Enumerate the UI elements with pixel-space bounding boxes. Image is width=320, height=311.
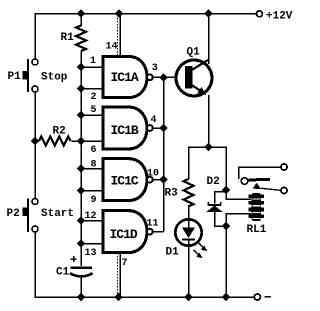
- wire pin5: [81, 114, 102, 116]
- svg-text:R2: R2: [53, 126, 66, 138]
- op gate IC1D: [103, 211, 147, 253]
- op gate IC1A: [103, 56, 147, 97]
- svg-text:7: 7: [122, 258, 128, 269]
- node pin3: [159, 73, 168, 82]
- wire pin7 dotted: [117, 253, 119, 296]
- wire pin14: [119, 14, 121, 56]
- svg-text:12: 12: [85, 211, 97, 222]
- svg-text:D2: D2: [207, 176, 220, 188]
- wire R1 top: [80, 14, 82, 27]
- node pin7 ground: [114, 293, 123, 302]
- wire coil bottom: [226, 214, 251, 227]
- svg-text:13: 13: [85, 248, 97, 259]
- relay coil RL1: [249, 193, 265, 221]
- svg-text:R1: R1: [61, 32, 75, 44]
- svg-text:IC1C: IC1C: [111, 174, 139, 189]
- wire pin2: [81, 88, 102, 90]
- svg-text:Start: Start: [41, 208, 74, 220]
- node relay ground: [222, 293, 231, 302]
- svg-text:9: 9: [91, 195, 97, 206]
- svg-text:D1: D1: [166, 247, 180, 259]
- node pin2: [77, 84, 86, 93]
- node emitter: [204, 143, 213, 152]
- svg-text:8: 8: [91, 160, 97, 171]
- node pin13: [77, 239, 86, 248]
- svg-text:+12V: +12V: [266, 10, 293, 22]
- svg-text:3: 3: [152, 63, 158, 74]
- wire pin13: [81, 243, 102, 245]
- node D1 ground: [184, 293, 193, 302]
- wire Q1 emitter: [208, 95, 210, 147]
- wire pin14 dotted: [117, 15, 119, 55]
- node D2 top: [222, 186, 231, 195]
- node R2 left: [31, 137, 40, 146]
- svg-text:P1: P1: [8, 71, 22, 83]
- svg-text:5: 5: [91, 105, 97, 116]
- relay contact pivot: [241, 178, 248, 185]
- wire emitter to relay branch: [209, 147, 226, 190]
- resistor R2: [39, 136, 71, 145]
- diode D2: [208, 202, 220, 205]
- node pin1: [77, 63, 86, 72]
- wire pin9: [81, 190, 102, 192]
- svg-text:Stop: Stop: [41, 72, 68, 84]
- op gate IC1C: [103, 159, 147, 201]
- node pin6 (R2): [77, 137, 86, 146]
- wire pin6: [81, 140, 102, 142]
- node pin12: [77, 216, 86, 225]
- LED arrows: [194, 242, 208, 258]
- op gate IC1B: [103, 107, 147, 149]
- svg-text:4: 4: [151, 115, 157, 126]
- wire pin7: [119, 253, 121, 297]
- pushbutton P1: [32, 59, 38, 65]
- svg-text:11: 11: [147, 219, 159, 230]
- wire D2 bottom: [215, 212, 227, 226]
- resistor R1: [76, 26, 86, 51]
- wire to D2: [215, 192, 227, 204]
- svg-text:IC1A: IC1A: [111, 70, 139, 85]
- relay contact arm: [249, 178, 271, 182]
- wire pin8: [81, 168, 102, 170]
- wire R3 to D1: [188, 205, 190, 219]
- wire R2 right: [71, 140, 81, 142]
- wire top rail +12V: [35, 14, 256, 60]
- node pin8: [77, 164, 86, 173]
- wire outputs bus: [163, 77, 165, 231]
- node top rail junction above R1: [77, 9, 86, 18]
- wire C1 bottom: [80, 278, 82, 297]
- svg-text:10: 10: [147, 169, 159, 180]
- svg-text:Q1: Q1: [187, 47, 201, 59]
- resistor R3: [184, 179, 194, 206]
- node D2 bottom: [222, 222, 231, 231]
- svg-text:RL1: RL1: [247, 224, 267, 236]
- node C1 ground: [77, 293, 86, 302]
- wire input bus x81: [80, 52, 82, 244]
- svg-text:R3: R3: [165, 188, 179, 200]
- wire D1 to ground: [188, 247, 190, 298]
- wire pin1: [81, 66, 102, 68]
- wire left rail middle: [34, 92, 36, 199]
- +12V terminal: [256, 11, 262, 17]
- wire emitter to R3: [189, 147, 209, 179]
- relay contact arrow: [253, 183, 262, 189]
- LED D1: [175, 219, 201, 245]
- svg-text:IC1D: IC1D: [110, 227, 138, 242]
- node pin10: [159, 175, 168, 184]
- svg-text:1: 1: [90, 56, 96, 67]
- pushbutton P2: [32, 199, 38, 205]
- wire ground rail: [35, 232, 254, 297]
- svg-text:IC1B: IC1B: [111, 123, 139, 138]
- wire coil top: [226, 190, 251, 199]
- wire Q1 collector: [208, 14, 210, 65]
- svg-text:6: 6: [91, 145, 97, 156]
- transistor Q1: [176, 60, 212, 96]
- node pin4: [159, 124, 168, 133]
- relay contact common wire: [239, 167, 281, 179]
- wire pin12: [81, 220, 102, 222]
- node top rail junction above pin14: [115, 9, 124, 18]
- node pin5: [77, 111, 86, 120]
- node pin9: [77, 186, 86, 195]
- svg-text:C1: C1: [56, 267, 70, 279]
- node top rail junction above Q1 collector: [204, 9, 213, 18]
- wire pin13 node to C1: [80, 244, 82, 267]
- svg-text:2: 2: [91, 92, 97, 103]
- svg-text:14: 14: [106, 42, 118, 53]
- ground terminal: [254, 294, 260, 300]
- wire base Q1: [164, 76, 187, 78]
- capacitor C1: [71, 266, 93, 269]
- wire coil branch ground: [225, 226, 227, 297]
- svg-text:P2: P2: [7, 208, 20, 220]
